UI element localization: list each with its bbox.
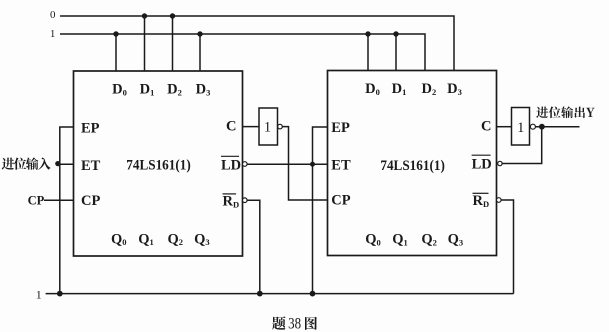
svg-text:ET: ET bbox=[331, 157, 351, 173]
svg-text:1: 1 bbox=[264, 120, 271, 136]
svg-text:EP: EP bbox=[331, 120, 350, 136]
svg-text:1: 1 bbox=[517, 120, 524, 136]
svg-text:38: 38 bbox=[288, 316, 301, 332]
svg-text:D1: D1 bbox=[392, 81, 407, 97]
svg-text:C: C bbox=[481, 119, 491, 135]
svg-text:D3: D3 bbox=[196, 82, 211, 98]
svg-text:EP: EP bbox=[81, 120, 100, 136]
svg-text:LD: LD bbox=[472, 157, 492, 173]
svg-text:D2: D2 bbox=[422, 81, 437, 97]
svg-text:Q3: Q3 bbox=[448, 232, 464, 248]
svg-text:Q1: Q1 bbox=[138, 231, 154, 247]
svg-text:Q2: Q2 bbox=[168, 231, 184, 247]
svg-text:Q1: Q1 bbox=[392, 232, 408, 248]
svg-text:1: 1 bbox=[50, 28, 56, 40]
svg-text:RD: RD bbox=[473, 193, 490, 209]
svg-text:CP: CP bbox=[331, 193, 350, 209]
svg-text:1: 1 bbox=[36, 288, 42, 302]
svg-text:CP: CP bbox=[81, 193, 100, 209]
svg-text:D2: D2 bbox=[167, 82, 182, 98]
svg-text:D0: D0 bbox=[112, 82, 127, 98]
svg-text:ET: ET bbox=[81, 158, 101, 174]
svg-text:D0: D0 bbox=[365, 81, 380, 97]
svg-text:Q0: Q0 bbox=[365, 232, 381, 248]
svg-text:74LS161(1): 74LS161(1) bbox=[126, 158, 191, 174]
svg-text:Q3: Q3 bbox=[194, 231, 210, 247]
svg-text:D1: D1 bbox=[140, 82, 155, 98]
svg-text:Q2: Q2 bbox=[421, 232, 437, 248]
svg-text:LD: LD bbox=[221, 158, 241, 174]
svg-text:C: C bbox=[226, 119, 236, 135]
svg-text:74LS161(1): 74LS161(1) bbox=[380, 158, 445, 174]
svg-text:0: 0 bbox=[50, 9, 56, 21]
svg-text:Q0: Q0 bbox=[111, 231, 127, 247]
svg-text:D3: D3 bbox=[447, 81, 462, 97]
svg-text:CP: CP bbox=[28, 193, 45, 207]
svg-text:RD: RD bbox=[223, 194, 240, 210]
